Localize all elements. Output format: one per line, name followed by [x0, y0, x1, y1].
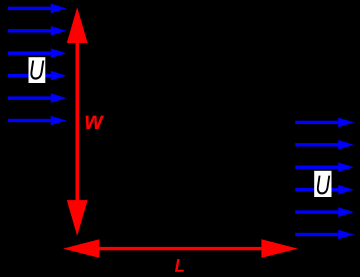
wire: right flow arrow 3	[295, 162, 354, 172]
left inflow arrows (velocity U)	[8, 4, 67, 126]
wire: left flow arrow 6	[8, 116, 67, 126]
label L	[175, 259, 184, 272]
label w	[86, 116, 104, 129]
wire: vertical dimension arrow w	[67, 7, 88, 236]
wire: right flow arrow 6	[295, 230, 354, 240]
wire: left flow arrow 2	[8, 26, 67, 36]
wire: right flow arrow 1	[295, 118, 354, 128]
wire: left flow arrow 4	[8, 71, 67, 81]
wire: left flow arrow 5	[8, 93, 67, 103]
wire: right flow arrow 5	[295, 207, 354, 217]
wire: left flow arrow 3	[8, 48, 67, 58]
node U (left label box)	[29, 57, 46, 83]
wire: horizontal dimension arrow L	[63, 239, 298, 258]
wire: right flow arrow 2	[295, 140, 354, 150]
right outflow arrows (velocity U)	[295, 118, 354, 240]
wire: left flow arrow 1	[8, 4, 67, 14]
wire: right flow arrow 4	[295, 185, 354, 195]
node U (right label box)	[314, 171, 331, 197]
